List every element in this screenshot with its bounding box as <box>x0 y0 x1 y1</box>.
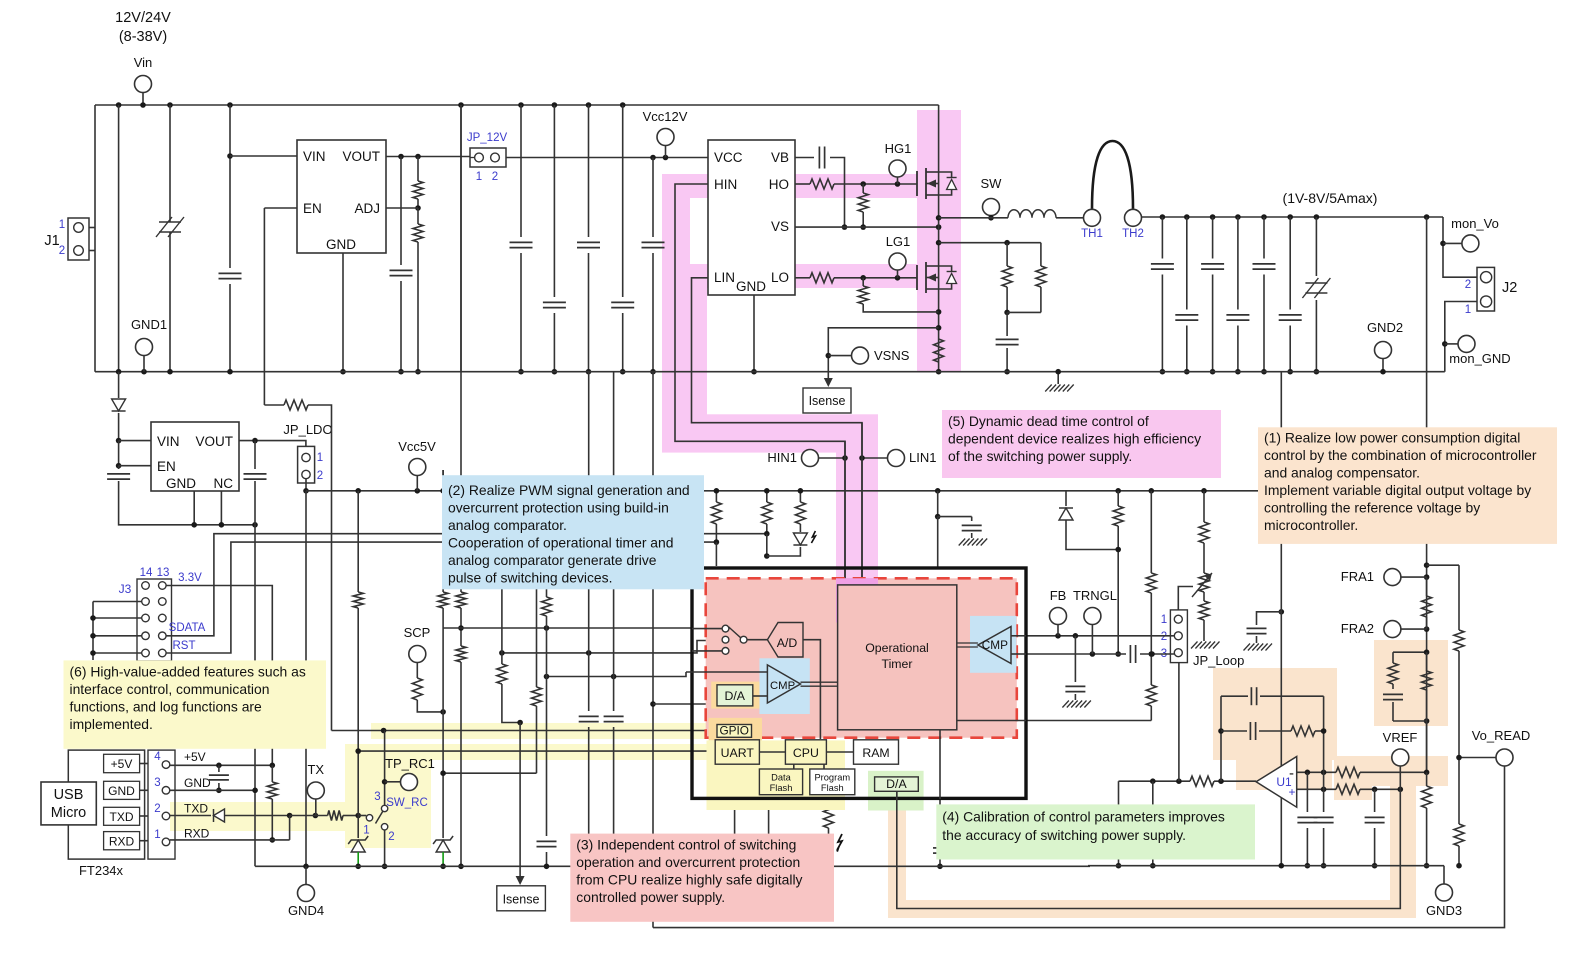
wire VS <box>795 226 939 228</box>
wire left rail <box>94 105 96 372</box>
svg-text:A/D: A/D <box>777 636 798 650</box>
wire isense arrow bottom <box>519 723 521 882</box>
highlight pink HIN stub <box>662 174 709 198</box>
svg-text:microcontroller.: microcontroller. <box>1264 517 1358 533</box>
capacitor plus filter <box>1374 789 1376 812</box>
svg-text:Cooperation of operational tim: Cooperation of operational timer and <box>448 535 673 551</box>
wire regulator GND stub <box>342 253 344 372</box>
resistor opto below mcu <box>828 799 830 806</box>
svg-text:functions, and log functions a: functions, and log functions are <box>70 698 263 714</box>
svg-text:interface control, communicati: interface control, communication <box>70 681 270 697</box>
opamp U1 <box>1256 757 1297 808</box>
highlight yellow GPIO row <box>371 723 722 739</box>
svg-text:(2) Realize PWM signal generat: (2) Realize PWM signal generation and <box>448 482 690 498</box>
block D/A 2 <box>875 777 919 791</box>
wire feedback right vertical <box>1323 696 1325 789</box>
svg-text:CMP: CMP <box>982 638 1008 652</box>
svg-text:1: 1 <box>1161 614 1167 626</box>
svg-text:+5V: +5V <box>184 750 206 764</box>
svg-text:14: 14 <box>140 567 153 579</box>
note (2) blue <box>442 475 704 589</box>
svg-text:RST: RST <box>173 640 196 652</box>
svg-text:from CPU realize highly safe d: from CPU realize highly safe digitally <box>576 872 802 888</box>
resistor LO gate <box>795 277 810 279</box>
svg-text:TH2: TH2 <box>1122 228 1144 240</box>
compensation network RC <box>1393 651 1427 653</box>
wire HIN into optimer <box>844 584 846 586</box>
svg-text:Implement variable digital out: Implement variable digital output voltag… <box>1264 482 1531 498</box>
selector switch inputs <box>722 625 729 632</box>
TVS output <box>1315 217 1317 276</box>
svg-text:+5V: +5V <box>111 757 133 771</box>
wire vcc branch x937 cap <box>935 488 941 494</box>
svg-text:Vcc5V: Vcc5V <box>398 439 436 454</box>
svg-text:SW: SW <box>981 176 1003 191</box>
wire optimer bottom right <box>957 720 1026 722</box>
svg-text:pulse of switching devices.: pulse of switching devices. <box>448 570 612 586</box>
wire CPU-RAM <box>826 751 853 753</box>
resistor divider bottom <box>417 208 419 224</box>
zener TXD <box>357 816 359 839</box>
transistor Q2 low-side MOSFET <box>916 265 918 290</box>
svg-text:Operational: Operational <box>865 641 929 655</box>
wire LDO GND stub <box>193 491 195 525</box>
svg-text:SDATA: SDATA <box>169 622 206 634</box>
svg-text:GND: GND <box>166 476 196 491</box>
svg-text:GND2: GND2 <box>1367 320 1403 335</box>
wire Vcc5V rail <box>306 490 1427 492</box>
resistor LED chain <box>799 491 801 502</box>
svg-text:VREF: VREF <box>1383 730 1418 745</box>
wire FB row <box>1026 635 1174 637</box>
highlight blue CMP1 <box>759 658 809 714</box>
resistor RXD pullup <box>271 765 273 782</box>
svg-text:J2: J2 <box>1502 280 1517 296</box>
highlight yellow SW_RC block <box>345 746 431 848</box>
svg-text:VOUT: VOUT <box>342 149 380 164</box>
svg-text:mon_GND: mon_GND <box>1449 351 1510 366</box>
wire optimer down <box>939 730 941 799</box>
capacitor x613 <box>613 372 615 711</box>
svg-text:mon_Vo: mon_Vo <box>1451 216 1499 231</box>
capacitor output bank <box>1161 217 1163 259</box>
svg-text:Isense: Isense <box>503 893 540 907</box>
wire CMP1 upper input <box>686 671 767 673</box>
svg-text:(6) High-value-added features: (6) High-value-added features such as <box>70 663 306 679</box>
svg-text:2: 2 <box>154 803 160 815</box>
svg-text:analog comparator generate dri: analog comparator generate drive <box>448 552 657 568</box>
connector header usb <box>148 750 175 859</box>
terminal mon_GND <box>1445 343 1458 345</box>
svg-text:VCC: VCC <box>714 150 743 165</box>
MCU analog red region <box>706 578 1017 737</box>
highlight pink vertical HIN/LIN <box>662 198 690 265</box>
wire gpio row <box>332 730 718 732</box>
diode input LDO <box>118 372 120 398</box>
terminal GND3 <box>1443 866 1445 884</box>
svg-text:HO: HO <box>769 177 789 192</box>
capacitor bank c1 <box>460 105 462 372</box>
svg-text:SCP: SCP <box>404 625 431 640</box>
wire thermistor jumper arc <box>1092 141 1133 209</box>
wire uart row <box>358 750 715 752</box>
svg-text:CPU: CPU <box>793 746 819 760</box>
svg-text:TRNGL: TRNGL <box>1073 588 1117 603</box>
wire VIN <box>230 155 297 157</box>
svg-text:2: 2 <box>59 245 65 257</box>
svg-text:analog comparator.: analog comparator. <box>448 517 567 533</box>
wire VOUT to jumper <box>239 441 306 447</box>
gate driver U3 <box>708 140 795 295</box>
svg-text:FRA2: FRA2 <box>1341 621 1374 636</box>
terminal GND4 <box>305 866 307 884</box>
wire x461 crossing <box>460 105 462 372</box>
svg-text:GND: GND <box>736 279 766 294</box>
highlight green D/A2 <box>868 771 924 811</box>
wire long vertical x1281 <box>1280 372 1282 866</box>
svg-text:D/A: D/A <box>886 777 907 791</box>
resistor shunt <box>934 339 944 362</box>
svg-text:VS: VS <box>771 219 789 234</box>
note (1) orange <box>1258 427 1557 544</box>
capacitor +5V to GND <box>218 765 220 772</box>
wire VSNS branch <box>828 328 938 383</box>
svg-text:Isense: Isense <box>809 394 846 408</box>
wire driver GND stub <box>753 295 755 372</box>
resistor divider top <box>417 157 419 182</box>
wire x443 top <box>442 470 444 491</box>
wire CMP2 doubleline <box>957 642 978 644</box>
capacitor U1 out filters <box>1306 772 1308 812</box>
svg-text:(4) Calibration of control par: (4) Calibration of control parameters im… <box>942 808 1225 824</box>
wire branch x1459 <box>1427 564 1459 566</box>
svg-text:LIN1: LIN1 <box>909 450 936 465</box>
block D/A 1 <box>717 685 753 706</box>
wire LDO EN <box>119 465 151 467</box>
wire VOUT rail <box>386 156 470 158</box>
wire cap branch down <box>254 525 256 867</box>
regulator U4 LDO <box>151 422 239 491</box>
box USB Micro <box>41 782 96 825</box>
svg-text:Vin: Vin <box>134 55 153 70</box>
svg-text:GND: GND <box>326 237 356 252</box>
highlight orange D/A1 <box>711 682 759 709</box>
svg-text:(5) Dynamic dead time control: (5) Dynamic dead time control of <box>948 413 1149 429</box>
wire CPU to ProgramFlash <box>823 764 825 769</box>
resistor pullup r767 <box>766 491 768 502</box>
svg-text:HIN1: HIN1 <box>767 450 797 465</box>
svg-text:the accuracy of switching powe: the accuracy of switching power supply. <box>942 827 1186 843</box>
svg-text:FB: FB <box>1050 588 1067 603</box>
box Operational Timer <box>838 585 957 730</box>
capacitor input bulk <box>229 105 231 268</box>
capacitor x940 <box>933 847 947 849</box>
block Program Flash <box>810 769 855 795</box>
svg-text:LIN: LIN <box>714 270 735 285</box>
highlight pink HO line <box>795 174 917 198</box>
wire analog bottom rail <box>1088 865 1444 867</box>
svg-text:GPIO: GPIO <box>719 724 749 738</box>
svg-text:VB: VB <box>771 150 789 165</box>
resistor gate HO <box>795 183 810 185</box>
resistor field x358 <box>357 491 359 592</box>
wire row to selector <box>443 627 692 629</box>
resistor HO pulldown <box>862 184 864 193</box>
svg-text:GND4: GND4 <box>288 903 324 918</box>
highlight pink horizontal to MCU <box>707 414 878 452</box>
note (5) pink <box>942 410 1221 478</box>
svg-text:J3: J3 <box>119 582 132 596</box>
connector J2 <box>1477 267 1495 311</box>
capacitor c6 Vcc12V <box>652 158 654 238</box>
wire TRNGL row <box>1026 653 1126 655</box>
wire x653 to bottom <box>652 372 654 867</box>
svg-text:2: 2 <box>1465 279 1471 291</box>
svg-text:+: + <box>1288 785 1295 799</box>
svg-text:TXD: TXD <box>110 810 134 824</box>
svg-text:-: - <box>1289 765 1294 782</box>
comparator CMP2 <box>978 627 1011 664</box>
svg-text:HG1: HG1 <box>885 141 912 156</box>
svg-text:2: 2 <box>1161 631 1167 643</box>
svg-text:RXD: RXD <box>184 827 210 841</box>
capacitor FB to gnd <box>1074 636 1076 682</box>
highlight orange compensation network <box>1374 640 1448 726</box>
capacitor c2 <box>520 105 522 237</box>
resistor x536 <box>536 491 538 687</box>
pin box RXD <box>104 832 140 850</box>
terminal TH2 <box>1125 209 1142 226</box>
wire GND row <box>170 789 255 791</box>
pin box TXD <box>104 807 140 825</box>
highlight yellow UART CPU flash <box>707 740 846 810</box>
svg-text:JP_Loop: JP_Loop <box>1193 653 1244 668</box>
capacitor c3 <box>553 105 555 297</box>
highlight pink band MOSFET rail <box>917 110 961 372</box>
svg-text:4: 4 <box>154 751 161 763</box>
connector J2 wiring <box>1443 217 1477 277</box>
wire mcu right row720 <box>1026 720 1151 722</box>
resistor r1118 <box>1115 488 1121 494</box>
wire row3 cmp input <box>547 672 687 677</box>
svg-text:controlling the reference volt: controlling the reference voltage by <box>1264 499 1480 515</box>
highlight orange GPIO <box>709 718 762 741</box>
highlight dark pink overlap op timer <box>836 578 878 622</box>
svg-text:13: 13 <box>157 567 170 579</box>
capacitor LDO input <box>118 466 120 469</box>
transistor Q1 high-side MOSFET <box>916 171 918 196</box>
pin box GND <box>104 781 140 799</box>
wire row2 to selector <box>502 641 722 653</box>
svg-text:VIN: VIN <box>157 434 180 449</box>
svg-text:SW_RC: SW_RC <box>386 797 428 809</box>
svg-text:control by the combination of: control by the combination of microcontr… <box>1264 447 1537 463</box>
svg-text:LO: LO <box>771 270 789 285</box>
capacitor bootstrap VB <box>795 157 814 159</box>
svg-text:GND3: GND3 <box>1426 903 1462 918</box>
wire CMP1 output doubleline <box>801 681 838 683</box>
TVS input protection <box>158 214 182 240</box>
wire VCC line <box>506 157 708 159</box>
svg-text:1: 1 <box>476 171 482 183</box>
wire branch to DA input <box>653 698 717 704</box>
resistor snubber pair <box>1040 243 1042 266</box>
block GPIO <box>717 725 752 738</box>
wire JP_Loop pin3 drop <box>1178 663 1180 782</box>
svg-text:2: 2 <box>317 470 323 482</box>
svg-text:3: 3 <box>154 777 160 789</box>
highlight orange U1 block <box>1213 668 1337 760</box>
svg-text:TP_RC1: TP_RC1 <box>385 756 435 771</box>
svg-text:TH1: TH1 <box>1081 228 1103 240</box>
wire LIN routing <box>692 278 863 585</box>
svg-text:Timer: Timer <box>882 657 913 671</box>
svg-text:FT234x: FT234x <box>79 863 124 878</box>
wire below-mcu stubs <box>734 799 736 866</box>
svg-text:Micro: Micro <box>51 805 86 821</box>
wire x1118 x1152 drops to rail <box>1150 778 1156 784</box>
svg-text:Vcc12V: Vcc12V <box>643 109 688 124</box>
highlight blue CMP2 <box>970 616 1016 673</box>
capacitor x588 <box>588 372 590 711</box>
svg-text:GND1: GND1 <box>131 317 167 332</box>
wire AD to CPU <box>803 640 820 739</box>
block RAM <box>854 740 899 764</box>
wire TXD row <box>170 815 211 817</box>
capacitor snubber <box>1006 312 1008 336</box>
wire U1 minus input <box>1297 771 1336 773</box>
svg-text:(8-38V): (8-38V) <box>119 29 167 45</box>
wire ADJ <box>386 207 418 209</box>
svg-text:EN: EN <box>157 459 176 474</box>
wire CPU to DataFlash <box>793 764 795 769</box>
svg-text:JP_LDO: JP_LDO <box>283 422 332 437</box>
wire DA1 to CMP1 <box>753 695 768 697</box>
wire LDO VIN <box>119 440 151 442</box>
wire SW_RC riser to GPIO row <box>384 731 386 806</box>
wire CMP2 inputs <box>1011 635 1026 637</box>
ground symbol output <box>1057 372 1059 384</box>
svg-text:operation and overcurrent prot: operation and overcurrent protection <box>576 854 800 870</box>
wire SW node <box>939 217 1008 219</box>
diode d1066 <box>1065 491 1067 506</box>
svg-text:CMP: CMP <box>770 680 795 692</box>
wire x940 below mcu <box>939 799 941 866</box>
svg-text:of the switching power supply.: of the switching power supply. <box>948 448 1132 464</box>
wire Vo_READ link to sense <box>1459 757 1496 759</box>
svg-text:HIN: HIN <box>714 177 737 192</box>
wire +5V row <box>170 764 272 766</box>
chain x546 cap <box>546 491 548 597</box>
terminal TH1 <box>1084 209 1101 226</box>
svg-text:2: 2 <box>388 831 394 843</box>
resistor field x442 <box>442 470 444 592</box>
svg-text:VSNS: VSNS <box>874 348 910 363</box>
wire input branch x118 <box>118 105 120 372</box>
resistor chain r1151 <box>1149 488 1155 494</box>
wire HIN drop to MCU <box>844 441 846 585</box>
svg-text:and analog compensator.: and analog compensator. <box>1264 464 1420 480</box>
svg-text:1: 1 <box>154 829 160 841</box>
potentiometer chain r1204 <box>1201 488 1207 494</box>
svg-text:2: 2 <box>492 171 498 183</box>
comparator CMP1 <box>767 665 800 703</box>
svg-text:VOUT: VOUT <box>195 434 233 449</box>
terminal VSNS <box>852 347 869 364</box>
svg-text:J1: J1 <box>44 233 59 249</box>
svg-text:3.3V: 3.3V <box>178 572 202 584</box>
capacitor LDO output <box>254 441 256 469</box>
svg-text:overcurrent protection using b: overcurrent protection using build-in <box>448 500 669 516</box>
svg-text:(1V-8V/5Amax): (1V-8V/5Amax) <box>1283 190 1378 206</box>
svg-text:controlled power supply.: controlled power supply. <box>576 889 725 905</box>
svg-text:GND: GND <box>108 784 135 798</box>
switch SW_RC <box>366 815 372 821</box>
wire bottom bus top-section <box>95 371 1445 373</box>
pin box +5V <box>104 754 140 772</box>
svg-text:JP_12V: JP_12V <box>467 132 508 144</box>
chip FT234x <box>68 750 144 859</box>
svg-text:ADJ: ADJ <box>354 201 380 216</box>
svg-text:UART: UART <box>721 746 755 760</box>
wire LIN drop to MCU <box>861 423 863 585</box>
MCU outer box <box>692 568 1026 798</box>
wire HIN routing <box>675 184 845 585</box>
svg-text:FRA1: FRA1 <box>1341 569 1374 584</box>
wire MOSFET rail <box>938 105 940 372</box>
svg-text:Vo_READ: Vo_READ <box>1472 728 1531 743</box>
wire output sense vertical x1426 <box>1426 217 1428 772</box>
svg-text:D/A: D/A <box>724 689 745 703</box>
svg-text:(3) Independent control of swi: (3) Independent control of switching <box>576 837 796 853</box>
svg-text:RXD: RXD <box>109 835 135 849</box>
note (4) green <box>936 804 1255 859</box>
resistor field x461 <box>460 372 462 592</box>
feedback network U1 <box>1220 696 1222 781</box>
svg-text:1: 1 <box>317 452 323 464</box>
wire J2 pin1 to mon_GND <box>1445 302 1477 372</box>
wire output line <box>1142 216 1444 218</box>
snubber RC branch <box>939 242 1041 244</box>
resistor LO pulldown <box>862 278 864 286</box>
svg-text:Flash: Flash <box>821 783 844 793</box>
svg-text:RAM: RAM <box>862 746 889 760</box>
note (3) red <box>570 834 834 922</box>
resistor FRA divider <box>1426 577 1428 596</box>
wire LDO NC stub <box>220 491 222 525</box>
capacitor c5 <box>622 105 624 297</box>
box Isense bottom <box>497 886 546 911</box>
svg-text:EN: EN <box>303 201 322 216</box>
wire VREF to DA2 path <box>897 789 1401 908</box>
connector J1 <box>68 218 89 260</box>
wire RXD row <box>170 839 290 841</box>
svg-text:Data: Data <box>771 773 791 783</box>
highlight orange DA-VREF path <box>888 796 906 918</box>
connector JP_Loop <box>1170 610 1187 663</box>
svg-text:Flash: Flash <box>770 783 793 793</box>
svg-text:dependent device realizes high: dependent device realizes high efficienc… <box>948 431 1201 447</box>
wire LIN into optimer <box>861 584 863 586</box>
wire JP_Loop pin1 jog <box>1178 587 1193 615</box>
resistor minus to rail <box>1426 772 1428 786</box>
note (6) yellow <box>64 660 327 748</box>
svg-text:implemented.: implemented. <box>70 716 153 732</box>
wire DA2 output drop <box>896 791 898 799</box>
inductor L1 <box>1008 210 1056 218</box>
highlight dark pink overlap in MCU <box>836 578 878 622</box>
wire selector to AD <box>747 639 767 641</box>
